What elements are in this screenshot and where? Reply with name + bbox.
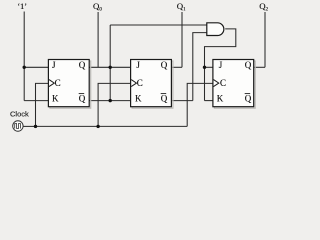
wire and output jog <box>205 29 236 101</box>
svg-text:J: J <box>219 60 223 70</box>
svg-text:Q: Q <box>161 93 168 103</box>
svg-text:C: C <box>220 78 226 88</box>
svg-text:J: J <box>52 60 56 70</box>
wire Q2 riser to label <box>264 12 266 67</box>
wire and-in1 riser <box>109 25 111 101</box>
wire and-in2 riser <box>193 33 207 101</box>
node K2 row dot <box>109 99 112 102</box>
wire clock riser FF2 <box>98 83 131 126</box>
flip-flop U2 box <box>131 60 173 109</box>
flip-flop U3 box <box>213 60 255 109</box>
node J1 dot <box>23 66 26 69</box>
wire and-in1 horizontal <box>110 24 207 26</box>
wire '1' vertical <box>23 12 25 101</box>
wire clock riser FF3 <box>187 83 213 126</box>
clock input triangles <box>49 80 219 87</box>
wire clock stub <box>22 125 35 127</box>
svg-text:C: C <box>55 78 61 88</box>
node clock dot 2 <box>96 125 99 128</box>
wire clock riser FF1 <box>36 83 49 126</box>
node clock dot 1 <box>34 125 37 128</box>
svg-text:Q: Q <box>245 60 252 70</box>
wire J1 from '1' <box>24 66 48 68</box>
node J3 dot <box>203 66 206 69</box>
svg-text:C: C <box>137 78 143 88</box>
node Q0 row dot <box>109 66 112 69</box>
svg-text:Clock: Clock <box>10 110 29 119</box>
wire K3 <box>205 100 213 102</box>
svg-text:Q: Q <box>245 93 252 103</box>
clock source symbol <box>13 121 23 131</box>
junction dots <box>23 66 207 129</box>
svg-text:Q: Q <box>79 93 86 103</box>
wire Q0 row <box>89 66 130 68</box>
wire Q1bar row to and-in2 <box>171 100 192 102</box>
wire K1 from '1' <box>24 100 48 102</box>
and-gate U4 <box>207 23 224 36</box>
svg-text:Q: Q <box>161 60 168 70</box>
svg-text:‘1’: ‘1’ <box>17 2 27 11</box>
svg-text:J: J <box>136 60 140 70</box>
wire clock bus <box>36 125 188 127</box>
svg-text:K: K <box>52 93 59 103</box>
wire K2 row <box>89 100 130 102</box>
svg-text:Q: Q <box>79 60 86 70</box>
svg-text:K: K <box>217 93 224 103</box>
wire Q2 stub <box>254 66 265 68</box>
wire Q1 stub <box>171 66 182 68</box>
svg-text:K: K <box>135 93 142 103</box>
wire Q0 riser to label <box>97 12 99 67</box>
wire J3 <box>205 66 213 68</box>
flip-flop U1 box <box>48 60 90 109</box>
wire Q1 riser to label <box>181 12 183 67</box>
